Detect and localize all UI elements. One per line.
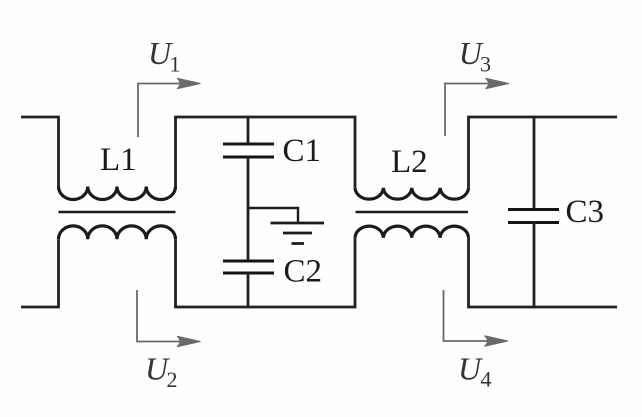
inductor L1 core line bbox=[59, 211, 176, 214]
inductor L1 lower winding bbox=[59, 226, 176, 239]
wire C3 stem top bbox=[533, 116, 536, 210]
capacitor C2 bbox=[223, 261, 274, 273]
wire C1 stem top bbox=[247, 116, 250, 144]
wire L2 right top to right end bbox=[469, 117, 618, 188]
svg-text:1: 1 bbox=[170, 52, 181, 77]
ground tap wire bbox=[248, 208, 298, 222]
svg-text:3: 3 bbox=[480, 52, 491, 77]
wire C1 to C2 bbox=[247, 157, 250, 261]
wire L1 right to L2 left (top) bbox=[176, 117, 356, 188]
wire L2 right bottom to right end bbox=[469, 238, 618, 307]
arrow U2 bbox=[137, 290, 201, 347]
wire C2 stem bottom bbox=[247, 273, 250, 308]
arrow U1 bbox=[138, 78, 201, 137]
capacitor C3 bbox=[508, 210, 559, 223]
wire L1 right to L2 left (bottom) bbox=[176, 238, 356, 307]
inductor L1 upper winding bbox=[59, 187, 176, 200]
arrow U4 bbox=[444, 290, 509, 346]
wire bottom-left entry bbox=[21, 239, 59, 307]
svg-text:C3: C3 bbox=[566, 194, 605, 230]
inductor L2 core line bbox=[356, 211, 469, 214]
arrow U3 bbox=[445, 78, 509, 136]
svg-text:2: 2 bbox=[167, 367, 178, 392]
wire top-left entry bbox=[21, 117, 59, 187]
wire C3 stem bottom bbox=[533, 223, 536, 309]
inductor L2 upper winding bbox=[355, 188, 469, 199]
inductor L2 lower winding bbox=[355, 226, 469, 238]
svg-text:L2: L2 bbox=[391, 144, 428, 180]
ground bbox=[271, 223, 325, 244]
capacitor C1 bbox=[223, 144, 274, 157]
svg-text:L1: L1 bbox=[100, 142, 137, 178]
svg-text:4: 4 bbox=[481, 367, 492, 392]
svg-text:C1: C1 bbox=[283, 133, 322, 169]
svg-text:U: U bbox=[458, 351, 483, 387]
svg-text:C2: C2 bbox=[284, 254, 323, 290]
